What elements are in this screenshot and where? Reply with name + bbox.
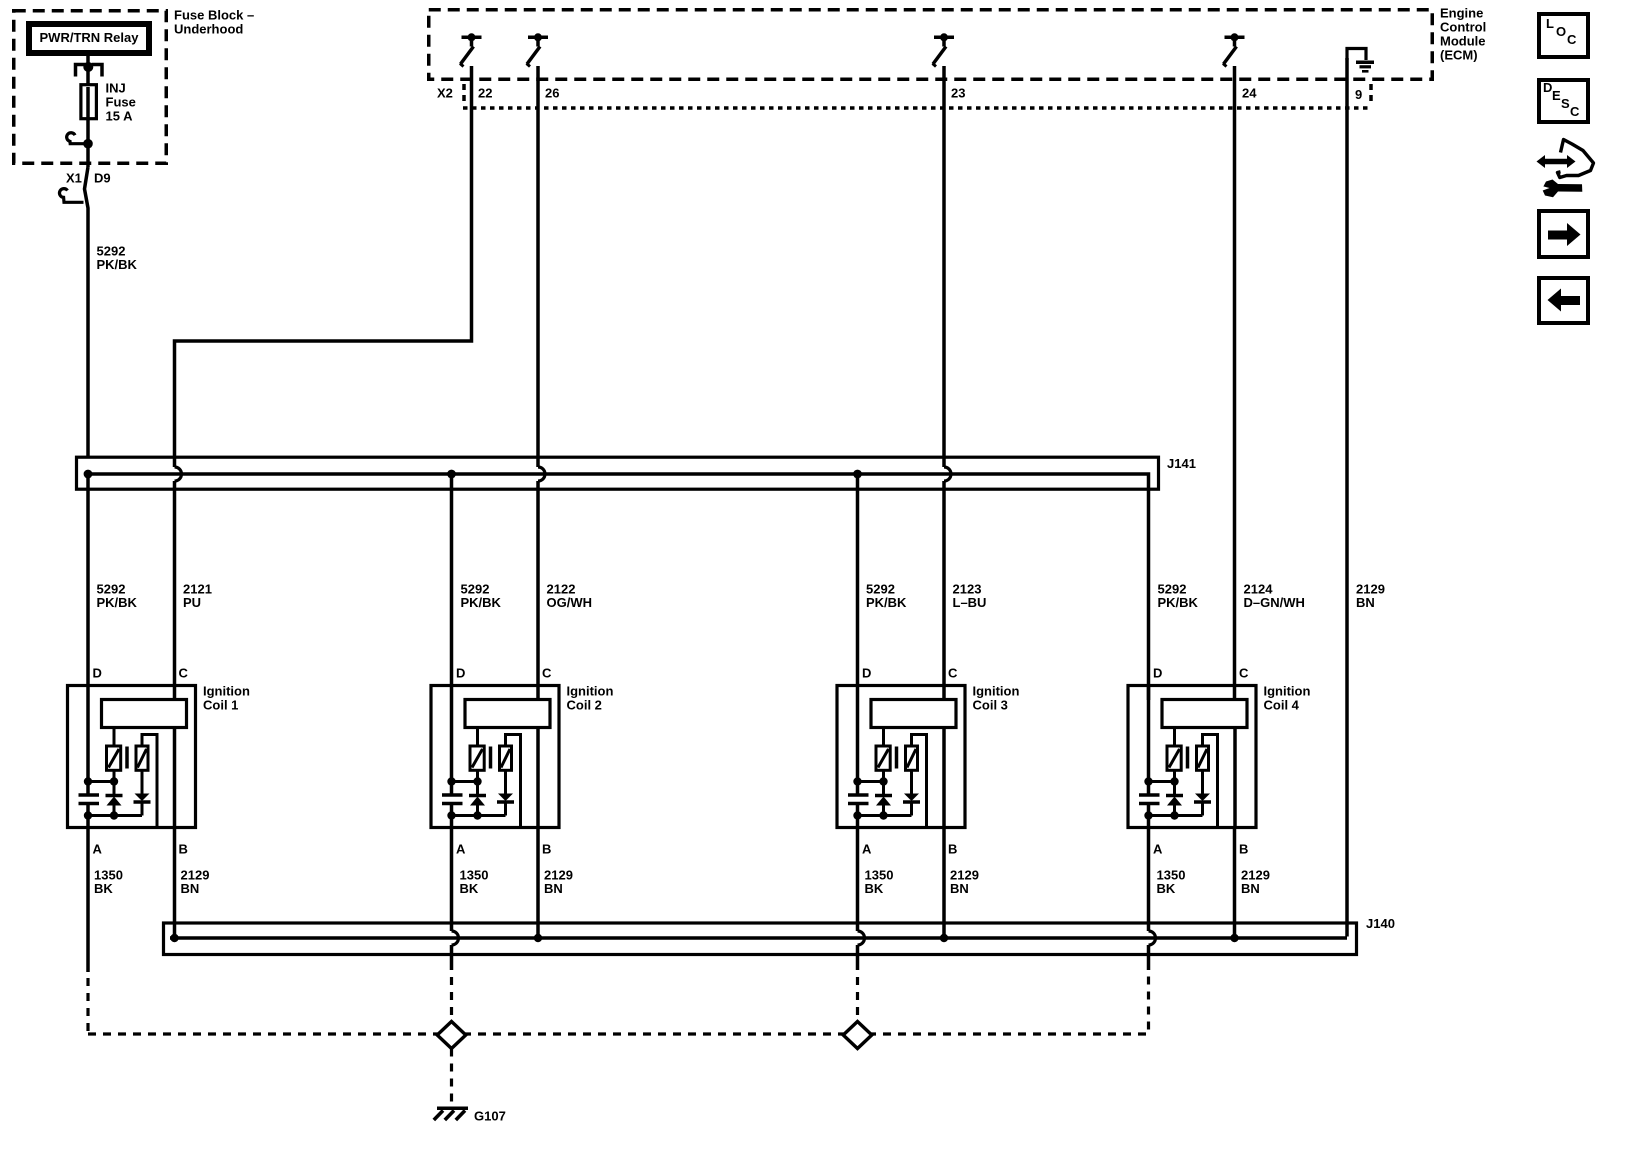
coil 1 capacitor	[79, 793, 100, 797]
coil 4 junction bar upper	[1149, 780, 1175, 783]
wire 5292 PK/BK J141 to coil3 D	[856, 474, 860, 686]
svg-text:C: C	[1239, 666, 1249, 681]
svg-text:C: C	[1567, 32, 1577, 47]
coil 3 wire A exit	[856, 804, 860, 830]
coil 4 junction bar lower	[1149, 814, 1203, 817]
connector X2 left separator	[462, 84, 466, 104]
svg-text:OG/WH: OG/WH	[547, 595, 593, 610]
coil 3 core	[895, 747, 899, 769]
coil 1 primary winding	[107, 746, 121, 770]
junction dot relay terminal	[83, 62, 93, 72]
coil 3 primary winding	[876, 746, 890, 770]
coil 1 wire module to primary winding	[113, 728, 116, 745]
coil 1 internal module rect	[102, 700, 187, 728]
wire 2129 BN coil1 B to J140	[173, 829, 177, 938]
svg-text:E: E	[1552, 88, 1561, 103]
coil 3 junction bar lower	[858, 814, 912, 817]
svg-text:D: D	[862, 666, 871, 681]
dashed ground wire coil3 A	[856, 977, 859, 1022]
wire 5292 PK/BK J141 to coil1 D	[86, 474, 90, 686]
svg-text:24: 24	[1242, 86, 1257, 101]
coil 4 wire B from module	[1233, 728, 1237, 829]
svg-text:BN: BN	[950, 881, 969, 896]
junction dot J140 / coil1 B	[170, 934, 178, 942]
coil 1 secondary top to case	[142, 735, 157, 828]
wire 5292 PK/BK J141 to coil2 D	[450, 474, 454, 686]
coil 4 wire module to primary winding	[1173, 728, 1176, 745]
svg-text:X2: X2	[437, 86, 453, 101]
coil 4 primary winding	[1167, 746, 1181, 770]
dashed ground stub to G107	[450, 1049, 453, 1108]
svg-text:BK: BK	[460, 881, 479, 896]
junction dot J140 / coil4 B	[1230, 934, 1238, 942]
svg-text:A: A	[862, 842, 872, 857]
svg-text:Fuse Block –: Fuse Block –	[174, 8, 254, 23]
coil 2 secondary winding	[500, 746, 512, 770]
coil 3 junction bar upper	[858, 780, 884, 783]
coil 2 wire B from module	[536, 728, 540, 829]
connector X1/D9 terminal hook	[59, 189, 83, 203]
coil 2 primary winding	[470, 746, 484, 770]
svg-text:B: B	[179, 842, 188, 857]
svg-text:D: D	[1153, 666, 1162, 681]
connector X2 right separator	[1369, 84, 1373, 104]
wire 2122 OG/WH: pin 26 to coil 2 pin C (hops over J141)	[536, 66, 540, 467]
coil 1 junction bar lower	[88, 814, 142, 817]
svg-text:BK: BK	[1157, 881, 1176, 896]
svg-text:BN: BN	[1356, 595, 1375, 610]
svg-text:PK/BK: PK/BK	[97, 595, 138, 610]
coil 1 wire A exit	[86, 804, 90, 830]
svg-text:Underhood: Underhood	[174, 22, 243, 37]
svg-text:PK/BK: PK/BK	[461, 595, 502, 610]
coil 3 wire module to primary winding	[882, 728, 885, 745]
svg-text:Ignition: Ignition	[973, 684, 1020, 699]
wire 2123 L-BU: pin 23 to coil 3 pin C (hops over J141)	[942, 66, 946, 467]
svg-text:BK: BK	[865, 881, 884, 896]
coil 2 wire module to primary winding	[476, 728, 479, 745]
wire 1350 BK coil4 A down (hops over J140)	[1147, 829, 1151, 931]
ignition coil 1 box	[68, 686, 196, 828]
ECM driver switch pin 26	[528, 36, 548, 40]
coil 2 diode 1 (up)	[469, 794, 486, 798]
svg-text:BN: BN	[181, 881, 200, 896]
coil 1 wire primary bottom	[113, 770, 116, 795]
svg-text:L–BU: L–BU	[953, 595, 987, 610]
coil 4 core	[1186, 747, 1190, 769]
coil 2 core	[489, 747, 493, 769]
svg-text:PK/BK: PK/BK	[97, 257, 138, 272]
ECM driver switch pin 23	[934, 36, 954, 40]
ignition coil 4 box	[1128, 686, 1256, 828]
svg-text:S: S	[1561, 96, 1570, 111]
svg-text:(ECM): (ECM)	[1440, 48, 1478, 63]
DESC icon box	[1539, 80, 1588, 122]
svg-text:A: A	[1153, 842, 1163, 857]
ECM driver switch pin 22	[462, 36, 482, 40]
svg-text:D: D	[1543, 80, 1552, 95]
ignition coil 3 box	[837, 686, 965, 828]
svg-text:Coil 3: Coil 3	[973, 698, 1008, 713]
dashed ground wire coil1 A	[86, 978, 89, 1032]
svg-text:Coil 1: Coil 1	[203, 698, 238, 713]
coil 2 secondary top to case	[506, 735, 521, 828]
svg-text:X1: X1	[66, 171, 82, 186]
coil 4 diode 1 (up)	[1166, 794, 1183, 798]
svg-text:C: C	[179, 666, 189, 681]
coil 3 diode 2 (down)	[910, 770, 913, 794]
schematic navigation icon (double arrow + outline arrow + wrench)	[1537, 140, 1594, 198]
coil 3 wire D to primary junction	[856, 684, 860, 795]
svg-text:Engine: Engine	[1440, 6, 1483, 21]
svg-text:PU: PU	[183, 595, 201, 610]
ECM internal ground pin 9	[1347, 49, 1366, 61]
coil 1 diode 1 (up)	[106, 794, 123, 798]
svg-text:PK/BK: PK/BK	[1158, 595, 1199, 610]
junction dot fuse terminal	[83, 139, 93, 149]
svg-text:Ignition: Ignition	[567, 684, 614, 699]
engine control module dashed box	[429, 10, 1433, 80]
relay K PWR/TRN Relay	[26, 21, 152, 56]
wire 1350 BK coil2 A down (hops over J140)	[450, 829, 454, 931]
svg-text:Ignition: Ignition	[203, 684, 250, 699]
coil 2 wire primary bottom	[476, 770, 479, 795]
coil 3 capacitor	[848, 793, 869, 797]
coil 4 wire D to primary junction	[1147, 684, 1151, 795]
svg-text:B: B	[542, 842, 551, 857]
splice pack J140	[164, 923, 1357, 955]
svg-text:A: A	[93, 842, 103, 857]
wire 1350 BK coil3 A down (hops over J140)	[856, 829, 860, 931]
ECM driver switch pin 24	[1225, 36, 1245, 40]
coil 4 internal module rect	[1162, 700, 1247, 728]
coil 2 diode 2 (down)	[504, 770, 507, 794]
coil 3 secondary top to case	[912, 735, 927, 828]
splice pack J141	[77, 457, 1159, 489]
dashed ground bus horizontal	[88, 976, 1149, 1034]
J140 inner splice line	[170, 936, 1347, 940]
svg-text:D: D	[456, 666, 465, 681]
coil 2 wire D to primary junction	[450, 684, 454, 795]
svg-text:BN: BN	[1241, 881, 1260, 896]
fuse block underhood dashed box	[14, 11, 167, 164]
LOC icon box	[1539, 14, 1588, 57]
coil 2 junction bar lower	[452, 814, 506, 817]
ground G107 symbol	[437, 1107, 468, 1111]
svg-text:D–GN/WH: D–GN/WH	[1244, 595, 1305, 610]
svg-text:9: 9	[1355, 87, 1362, 102]
junction dot J140 / coil2 B	[534, 934, 542, 942]
wire 2129 BN coil3 B to J140	[942, 829, 946, 938]
coil 1 diode 2 (down)	[141, 770, 144, 794]
wire 2124 D-GN/WH: pin 24 to coil 4 pin C	[1233, 66, 1237, 700]
svg-text:J140: J140	[1366, 916, 1395, 931]
fuse INJ Fuse 15 A	[81, 85, 97, 119]
dashed ground wire coil2 A	[450, 977, 453, 1022]
svg-text:INJ: INJ	[106, 81, 126, 96]
relay terminal brackets	[76, 65, 87, 77]
svg-text:BN: BN	[544, 881, 563, 896]
coil 2 junction bar upper	[452, 780, 478, 783]
coil 3 internal module rect	[871, 700, 956, 728]
svg-text:L: L	[1546, 16, 1554, 31]
svg-text:C: C	[1570, 104, 1580, 119]
svg-text:22: 22	[478, 86, 492, 101]
svg-text:PWR/TRN Relay: PWR/TRN Relay	[40, 30, 140, 45]
coil 3 secondary winding	[906, 746, 918, 770]
svg-text:Fuse: Fuse	[106, 95, 136, 110]
coil 1 junction bar upper	[88, 780, 114, 783]
svg-text:B: B	[1239, 842, 1248, 857]
coil 2 wire A exit	[450, 804, 454, 830]
wire 2121 PU: pin 22 to coil 1 pin C (hops over J141)	[175, 66, 472, 467]
svg-text:C: C	[948, 666, 958, 681]
svg-text:Ignition: Ignition	[1264, 684, 1311, 699]
next arrow icon box	[1539, 211, 1588, 257]
coil 3 wire B from module	[942, 728, 946, 829]
coil 1 wire B from module	[173, 728, 177, 829]
coil 1 wire D to primary junction	[86, 684, 90, 795]
fuse block terminal hook	[67, 133, 85, 144]
coil 3 wire primary bottom	[882, 770, 885, 795]
wire 2129 BN coil2 B to J140	[536, 829, 540, 938]
wire 2129 BN coil4 B to J140	[1233, 829, 1237, 938]
svg-text:C: C	[542, 666, 552, 681]
J141 inner splice line (turns down to coil 4 pin D)	[84, 474, 1149, 700]
coil 1 secondary winding	[136, 746, 148, 770]
svg-text:Module: Module	[1440, 34, 1486, 49]
svg-text:D: D	[93, 666, 102, 681]
svg-text:B: B	[948, 842, 957, 857]
wire fuse to fuse-block exit	[86, 87, 90, 118]
junction dot J141 / 5292 feed	[84, 470, 93, 479]
svg-text:26: 26	[545, 86, 559, 101]
wire 2129 BN: pin 9 down to J140 inner line	[1345, 58, 1349, 937]
connector X2 dotted face line	[463, 106, 1370, 110]
svg-text:A: A	[456, 842, 466, 857]
svg-text:G107: G107	[474, 1109, 506, 1124]
coil 4 wire A exit	[1147, 804, 1151, 830]
svg-text:23: 23	[951, 86, 965, 101]
svg-text:BK: BK	[94, 881, 113, 896]
back arrow icon box	[1539, 278, 1588, 323]
splice diamond S2	[843, 1022, 872, 1049]
coil 3 diode 1 (up)	[875, 794, 892, 798]
coil 4 capacitor	[1139, 793, 1160, 797]
coil 2 capacitor	[442, 793, 463, 797]
svg-text:O: O	[1556, 24, 1566, 39]
svg-text:J141: J141	[1167, 456, 1196, 471]
svg-text:Coil 4: Coil 4	[1264, 698, 1300, 713]
coil 4 wire primary bottom	[1173, 770, 1176, 795]
wire 1350 BK coil1 A down	[86, 829, 90, 972]
wire through connector X1/D9	[85, 167, 89, 458]
junction dot J141 / coil2 feed	[447, 470, 456, 479]
wire relay output	[86, 56, 90, 84]
coil 4 diode 2 (down)	[1201, 770, 1204, 794]
svg-text:D9: D9	[94, 171, 111, 186]
coil 4 secondary top to case	[1203, 735, 1218, 828]
coil 2 internal module rect	[465, 700, 550, 728]
coil 1 core	[125, 747, 129, 769]
splice diamond S1	[437, 1022, 466, 1049]
svg-text:PK/BK: PK/BK	[866, 595, 907, 610]
svg-text:15 A: 15 A	[106, 109, 134, 124]
ignition coil 2 box	[431, 686, 559, 828]
svg-text:Coil 2: Coil 2	[567, 698, 602, 713]
coil 4 secondary winding	[1197, 746, 1209, 770]
svg-text:Control: Control	[1440, 20, 1486, 35]
junction dot J140 / coil3 B	[940, 934, 948, 942]
junction dot J141 / coil3 feed	[853, 470, 862, 479]
